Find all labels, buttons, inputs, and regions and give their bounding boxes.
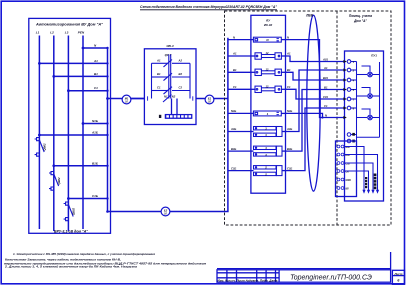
pole B rung	[152, 76, 168, 78]
lower tap A1B from L1	[39, 134, 107, 136]
svg-text:N1Б: N1Б	[92, 119, 98, 123]
bus PEN	[82, 36, 84, 230]
row 5 (double terminal)	[254, 166, 283, 176]
svg-text:2. Длина линии 3, 4, 5 клеммой: 2. Длина линии 3, 4, 5 клеммой включения…	[4, 265, 138, 269]
breaker QF1 on L1	[35, 138, 45, 157]
svg-text:QВ02: QВ02	[72, 207, 76, 215]
bus L1	[39, 36, 107, 232]
svg-text:В1: В1	[94, 72, 98, 76]
row 3 (double terminal)	[254, 127, 283, 137]
row inner wires	[251, 40, 286, 171]
dashed room boundary	[225, 11, 392, 225]
svg-text:1. Электросчетчик с RS-485 (GS: 1. Электросчетчик с RS-485 (GSM) каналом…	[13, 252, 155, 256]
title block	[217, 252, 391, 282]
meter wire labels	[322, 57, 328, 117]
lower tap N1B from PEN	[83, 123, 108, 125]
svg-text:С1: С1	[287, 85, 291, 89]
interface sub-box	[336, 141, 357, 197]
mesh wiring YAU to meter	[286, 40, 345, 171]
tap N from PEN	[83, 47, 108, 49]
svg-text:N: N	[325, 113, 327, 117]
svg-text:С1Б: С1Б	[92, 194, 98, 198]
tap B1 from L2	[54, 75, 108, 77]
junction dots	[38, 47, 109, 213]
tap labels	[91, 44, 98, 199]
title (top, underlined)	[140, 5, 277, 9]
svg-text:ВРУ-3,1-сВ дом "А": ВРУ-3,1-сВ дом "А"	[54, 229, 88, 233]
row 1 (long terminal)	[253, 111, 281, 116]
svg-text:В1Б: В1Б	[231, 147, 236, 151]
svg-text:Изм. Кол.уч. Лист №докум. Подп: Изм. Кол.уч. Лист №докум. Подп. Дата	[218, 279, 279, 283]
svg-text:В1: В1	[157, 72, 161, 76]
tap C1 from L3	[68, 90, 107, 92]
meter input arrows	[343, 60, 346, 119]
svg-text:Схема подключения Вводного сче: Схема подключения Вводного счетчика Мерк…	[140, 5, 277, 9]
svg-text:N1Б: N1Б	[287, 109, 292, 113]
center tie double line	[168, 55, 170, 99]
lower tap B1B from L2	[54, 165, 108, 167]
svg-text:С01: С01	[323, 95, 328, 99]
wire through QF box	[196, 98, 206, 100]
main wire VRU to QF box	[108, 38, 228, 212]
svg-text:С1: С1	[94, 86, 98, 90]
pole C rung	[152, 90, 168, 92]
svg-text:ПУ1: ПУ1	[371, 53, 377, 57]
bus labels	[36, 31, 85, 35]
pole N contact on main wire	[163, 95, 172, 102]
svg-text:А1Б: А1Б	[91, 131, 98, 135]
svg-text:А01: А01	[322, 57, 328, 61]
collector vertical	[107, 48, 109, 212]
svg-text:N1: N1	[164, 95, 168, 99]
pole labels	[156, 59, 182, 99]
svg-text:В1: В1	[233, 68, 237, 72]
svg-text:ЛВВ: ЛВВ	[305, 14, 313, 18]
svg-text:Автоматизированная ВУ Дом "А": Автоматизированная ВУ Дом "А"	[35, 22, 104, 26]
row A (current block)	[255, 53, 281, 59]
svg-text:С2: С2	[179, 86, 183, 90]
svg-text:Лист: Лист	[393, 272, 403, 276]
svg-text:С1: С1	[157, 86, 161, 90]
svg-text:GND: GND	[346, 179, 352, 182]
cable marker M1	[122, 95, 131, 104]
svg-text:С1Б: С1Б	[231, 166, 236, 170]
meter phase B group	[347, 78, 379, 98]
svg-text:А2: А2	[178, 59, 183, 63]
svg-text:А1Б: А1Б	[286, 127, 292, 131]
svg-text:А1Б: А1Б	[230, 127, 236, 131]
lower tap C1B from L3	[68, 198, 107, 200]
svg-text:С1: С1	[233, 85, 237, 89]
row B (current block)	[255, 69, 281, 75]
svg-text:А1: А1	[323, 66, 328, 70]
interface drop wires	[344, 147, 378, 191]
tap A1 from L1	[39, 62, 107, 64]
row exit labels	[286, 35, 292, 170]
svg-text:ЯВ-3: ЯВ-3	[165, 44, 174, 48]
QF7 breaker poles	[152, 55, 191, 103]
dashed inner divider	[336, 11, 338, 225]
svg-text:В01: В01	[323, 76, 328, 80]
svg-text:В1: В1	[324, 85, 328, 89]
row C (current block)	[255, 86, 281, 92]
row N (long terminal)	[253, 37, 281, 42]
cable ellipse	[307, 15, 320, 191]
svg-text:QВ02: QВ02	[57, 177, 61, 185]
ВРУ box (left cabinet)	[29, 18, 111, 233]
svg-text:L2: L2	[50, 31, 54, 35]
svg-text:В1: В1	[287, 68, 291, 72]
svg-text:Дом "А": Дом "А"	[353, 19, 367, 23]
svg-text:А1: А1	[232, 52, 237, 56]
cable marker B2	[161, 207, 170, 216]
svg-text:Помещ. учета: Помещ. учета	[349, 14, 372, 18]
YAU box (test terminal box)	[251, 15, 286, 193]
bus L3	[67, 36, 69, 232]
meter box PU1	[345, 51, 384, 201]
svg-text:ИК-02: ИК-02	[264, 23, 273, 27]
QF7 box YAV-3	[144, 49, 196, 125]
pole A rung	[152, 62, 168, 64]
row 4 (double terminal)	[254, 146, 283, 156]
bottom wire VRU to trunk	[108, 38, 228, 212]
breaker QF2 on L2	[49, 172, 59, 191]
svg-text:А1: А1	[93, 59, 98, 63]
svg-text:С1Б: С1Б	[287, 166, 292, 170]
svg-text:В1Б: В1Б	[287, 147, 292, 151]
wire ticks at QF box edges	[147, 96, 149, 100]
svg-text:L1: L1	[36, 31, 40, 35]
cable marker B1	[205, 95, 214, 104]
notes (bottom left)	[4, 252, 206, 269]
trunk taps to YAU rows	[228, 40, 251, 171]
breaker QF3 on L3	[64, 202, 74, 221]
svg-text:N: N	[233, 35, 235, 39]
svg-text:В1Б: В1Б	[92, 161, 98, 165]
meter phase C group	[347, 97, 379, 120]
svg-text:С1: С1	[324, 104, 328, 108]
svg-text:В2: В2	[179, 72, 183, 76]
meter phase A group	[347, 60, 379, 141]
svg-text:А1: А1	[156, 59, 161, 63]
neutral terminals 10 11	[347, 130, 379, 143]
svg-text:Topengineer.ruТП-000.СЭ: Topengineer.ruТП-000.СЭ	[290, 275, 372, 282]
svg-text:QВ02: QВ02	[43, 143, 47, 151]
svg-text:А1: А1	[286, 52, 291, 56]
svg-text:N1Б: N1Б	[231, 109, 236, 113]
svg-text:N: N	[287, 35, 289, 39]
svg-text:N2: N2	[172, 95, 176, 99]
svg-text:L3: L3	[65, 31, 69, 35]
bus L2	[53, 36, 55, 232]
sheet box	[392, 270, 404, 284]
terminal strip X1	[159, 99, 192, 119]
svg-text:PEN: PEN	[78, 31, 85, 35]
